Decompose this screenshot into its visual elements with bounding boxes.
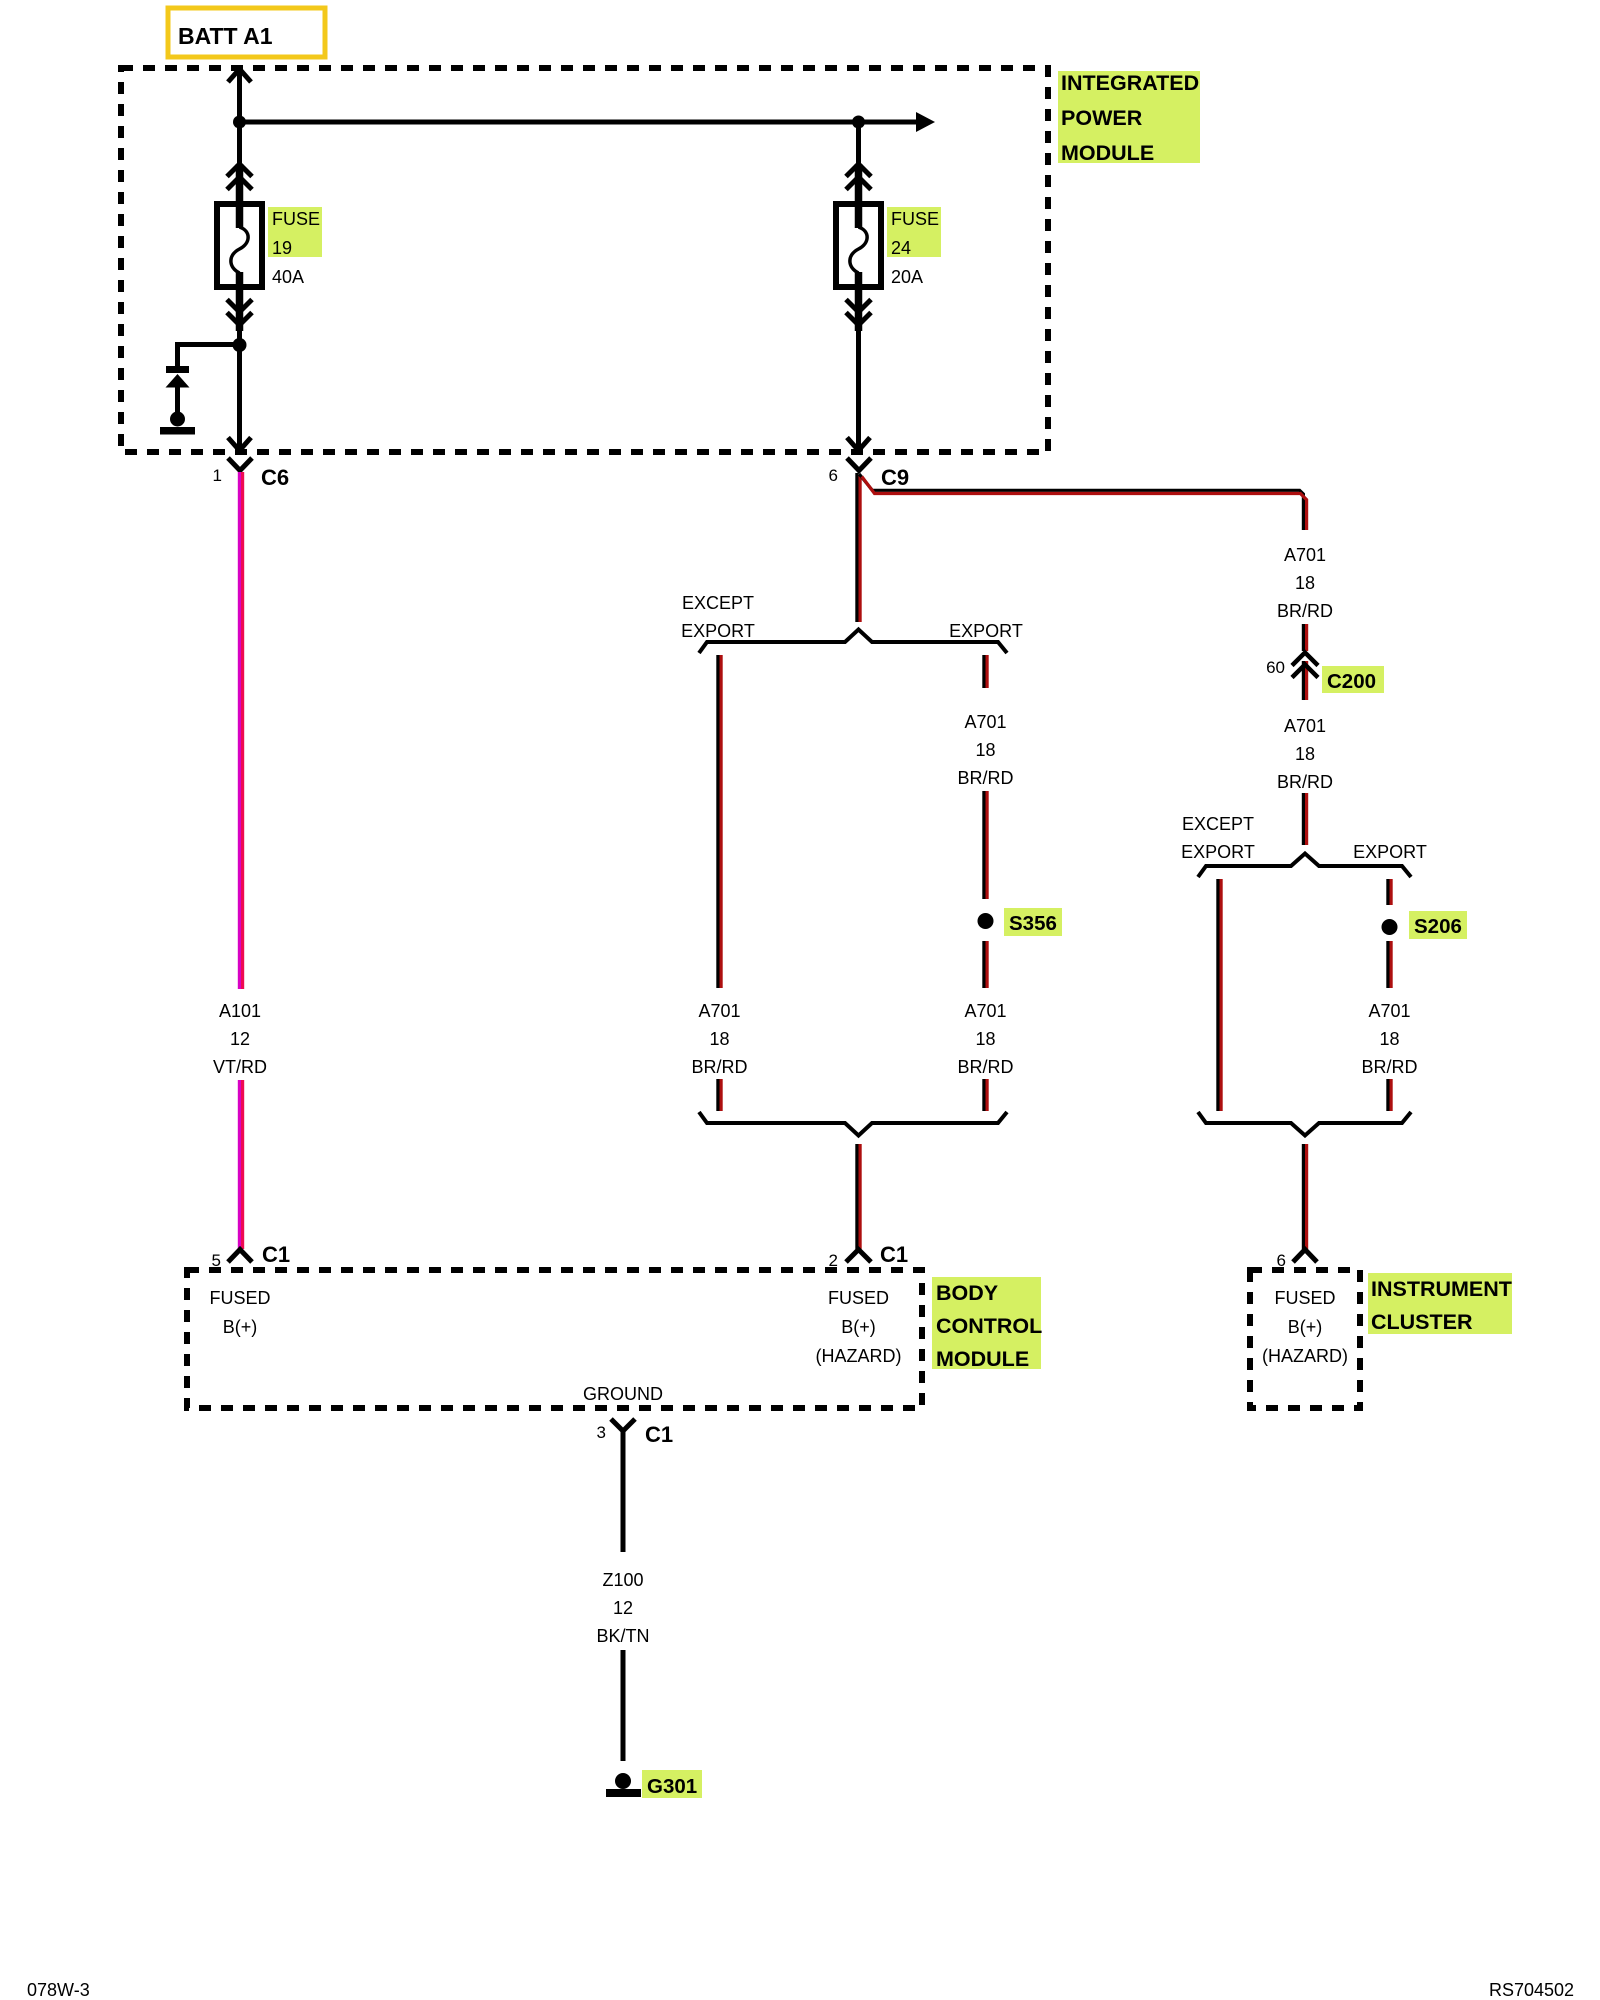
fuse 19 label	[268, 207, 322, 287]
svg-text:FUSED: FUSED	[1274, 1288, 1335, 1308]
wire segment to ground G301	[621, 1650, 626, 1761]
wire label A701 18 BR/RD (export branch lower)	[957, 1001, 1013, 1077]
svg-text:BK/TN: BK/TN	[596, 1626, 649, 1646]
case ground symbol for diode	[160, 412, 195, 435]
battery feed box BATT A1	[168, 8, 325, 57]
svg-text:078W-3: 078W-3	[27, 1980, 90, 2000]
svg-text:12: 12	[230, 1029, 250, 1049]
connector C6 pin 1	[213, 458, 290, 490]
svg-text:S206: S206	[1414, 915, 1462, 938]
wire label A701 18 BR/RD (export branch upper)	[957, 712, 1013, 788]
chevrons above fuse 24	[846, 164, 871, 190]
wire A701 BR/RD except-export branch (left)	[718, 655, 721, 1111]
splice S356	[978, 908, 1063, 936]
svg-text:BODY: BODY	[936, 1281, 998, 1305]
wire from merge brace to C1 pin 2	[857, 1144, 860, 1249]
distribution brace below C9	[699, 630, 1007, 654]
wire label A101 12 VT/RD	[213, 1001, 267, 1077]
svg-text:VT/RD: VT/RD	[213, 1057, 267, 1077]
wire from BATT A1 down to junction (with up arrowhead)	[228, 69, 251, 122]
svg-text:CONTROL: CONTROL	[936, 1314, 1042, 1338]
svg-text:A701: A701	[698, 1001, 740, 1021]
svg-text:A701: A701	[1284, 716, 1326, 736]
connector C1 pin 5	[212, 1242, 291, 1270]
EXCEPT EXPORT / EXPORT labels (left brace set)	[681, 593, 1023, 641]
fuse F24	[836, 201, 881, 290]
instrument cluster label	[1368, 1273, 1512, 1334]
svg-text:RS704502: RS704502	[1489, 1980, 1574, 2000]
svg-text:EXPORT: EXPORT	[1353, 842, 1427, 862]
svg-text:C1: C1	[262, 1242, 290, 1267]
svg-text:INSTRUMENT: INSTRUMENT	[1371, 1277, 1512, 1301]
chevrons above fuse 19	[227, 164, 252, 190]
ground G301 symbol	[606, 1773, 641, 1797]
merge brace above instrument cluster C1 pin 6	[1198, 1112, 1411, 1136]
wire label A701 18 BR/RD (right export branch)	[1361, 1001, 1417, 1077]
svg-text:EXCEPT: EXCEPT	[1182, 814, 1254, 834]
svg-text:FUSED: FUSED	[828, 1288, 889, 1308]
node junction above fuse 24	[852, 116, 865, 129]
chevrons below fuse 19	[227, 300, 252, 326]
svg-text:19: 19	[272, 238, 292, 258]
connector C200 pin 60 (double chevron)	[1266, 653, 1384, 694]
wire label Z100 12 BK/TN	[596, 1570, 649, 1646]
wire segment from C200 to right distribution brace	[1303, 793, 1306, 845]
svg-text:12: 12	[613, 1598, 633, 1618]
wire segment above C200	[1303, 624, 1306, 700]
svg-text:EXPORT: EXPORT	[949, 621, 1023, 641]
svg-text:POWER: POWER	[1061, 106, 1143, 130]
wire label A701 18 BR/RD (left branch)	[691, 1001, 747, 1077]
wire segment below splice S356	[984, 941, 987, 1111]
svg-text:60: 60	[1266, 658, 1285, 677]
instrument cluster box (dashed)	[1250, 1270, 1360, 1408]
fuse F19	[217, 201, 262, 290]
svg-text:A701: A701	[1284, 545, 1326, 565]
svg-text:BR/RD: BR/RD	[957, 1057, 1013, 1077]
svg-text:(HAZARD): (HAZARD)	[1262, 1346, 1348, 1366]
svg-text:18: 18	[975, 1029, 995, 1049]
arrowhead at C6 boundary	[228, 438, 251, 451]
connector C9 pin 6	[829, 458, 910, 490]
svg-text:MODULE: MODULE	[936, 1347, 1029, 1371]
svg-text:EXCEPT: EXCEPT	[682, 593, 754, 613]
arrowhead at C9 boundary	[847, 438, 870, 451]
svg-text:A701: A701	[964, 712, 1006, 732]
svg-text:GROUND: GROUND	[583, 1384, 663, 1404]
svg-text:A101: A101	[219, 1001, 261, 1021]
svg-text:B(+): B(+)	[841, 1317, 876, 1337]
svg-text:BR/RD: BR/RD	[957, 768, 1013, 788]
svg-text:G301: G301	[647, 1775, 697, 1798]
chevrons below fuse 24	[846, 300, 871, 326]
node junction top-left	[233, 116, 246, 129]
wire from junction into fuse 24	[856, 122, 861, 168]
wire Z100 BK/TN from C1 pin 3	[621, 1430, 626, 1552]
svg-text:FUSE: FUSE	[272, 209, 320, 229]
svg-text:BR/RD: BR/RD	[691, 1057, 747, 1077]
wire A101 VT/RD (violet/red) from C6 to C1 pin 5	[239, 472, 242, 1249]
wire segment down to splice S356	[984, 791, 987, 899]
svg-text:Z100: Z100	[602, 1570, 643, 1590]
fuse 24 label	[887, 207, 941, 287]
svg-text:FUSED: FUSED	[209, 1288, 270, 1308]
integrated power module box (dashed)	[121, 68, 1048, 452]
svg-text:40A: 40A	[272, 267, 304, 287]
wire from merge brace to instrument cluster pin 6	[1303, 1144, 1306, 1249]
svg-text:C1: C1	[645, 1422, 673, 1447]
wire from junction into fuse 19	[237, 122, 242, 168]
EXCEPT EXPORT / EXPORT labels (right brace set)	[1181, 814, 1427, 862]
wire A701 BR/RD branch from C9 to the right and down to C200	[859, 474, 1306, 530]
svg-text:B(+): B(+)	[1288, 1317, 1323, 1337]
ground G301 label	[642, 1770, 702, 1798]
body control module label	[932, 1277, 1042, 1371]
wire below splice S206	[1388, 941, 1391, 1111]
svg-text:BATT A1: BATT A1	[178, 23, 273, 49]
svg-text:20A: 20A	[891, 267, 923, 287]
wire label A701 18 BR/RD (below C200)	[1277, 716, 1333, 792]
wire A701 BR/RD except-export branch (right set, left)	[1218, 879, 1221, 1111]
svg-text:A701: A701	[964, 1001, 1006, 1021]
svg-text:C6: C6	[261, 465, 289, 490]
svg-text:EXPORT: EXPORT	[681, 621, 755, 641]
svg-text:BR/RD: BR/RD	[1277, 601, 1333, 621]
svg-text:18: 18	[1295, 744, 1315, 764]
connector C1 pin 2	[829, 1242, 909, 1270]
body control module box (dashed)	[187, 1270, 922, 1408]
svg-text:BR/RD: BR/RD	[1361, 1057, 1417, 1077]
distribution brace below C200	[1198, 854, 1411, 878]
wire below fuse 24	[855, 287, 863, 331]
wire below fuse 19	[236, 287, 244, 331]
wire label A701 18 BR/RD (above C200)	[1277, 545, 1333, 621]
svg-text:C200: C200	[1327, 670, 1376, 693]
svg-text:EXPORT: EXPORT	[1181, 842, 1255, 862]
wire horizontal bus to the right with arrowhead	[240, 112, 936, 132]
svg-text:C9: C9	[881, 465, 909, 490]
node junction to diode branch	[233, 338, 247, 352]
svg-text:INTEGRATED: INTEGRATED	[1061, 71, 1199, 95]
wire A701 BR/RD export branch (right) upper	[984, 655, 987, 688]
svg-text:FUSE: FUSE	[891, 209, 939, 229]
svg-text:18: 18	[1295, 573, 1315, 593]
svg-text:C1: C1	[880, 1242, 908, 1267]
diode (cathode bar up, anode to case ground)	[166, 366, 190, 413]
svg-text:CLUSTER: CLUSTER	[1371, 1310, 1473, 1334]
svg-text:18: 18	[975, 740, 995, 760]
svg-text:S356: S356	[1009, 912, 1057, 935]
connector pin 6 (instrument cluster)	[1277, 1250, 1317, 1271]
svg-text:24: 24	[891, 238, 911, 258]
svg-text:BR/RD: BR/RD	[1277, 772, 1333, 792]
svg-text:A701: A701	[1368, 1001, 1410, 1021]
merge brace above BCM C1 pin 2	[699, 1112, 1007, 1136]
svg-text:B(+): B(+)	[223, 1317, 258, 1337]
BCM pin functions	[209, 1288, 901, 1404]
svg-text:6: 6	[829, 466, 838, 485]
wire export branch down to splice S206	[1388, 879, 1391, 905]
connector C1 pin 3 (ground)	[597, 1419, 674, 1447]
svg-text:MODULE: MODULE	[1061, 141, 1154, 165]
instrument cluster pin function	[1262, 1288, 1348, 1366]
wire A701 BR/RD from C9 down to distribution brace	[857, 473, 860, 622]
wire branch to diode	[178, 345, 240, 367]
svg-text:18: 18	[1379, 1029, 1399, 1049]
splice S206	[1382, 911, 1468, 939]
integrated power module label	[1058, 71, 1200, 165]
svg-text:18: 18	[709, 1029, 729, 1049]
svg-text:(HAZARD): (HAZARD)	[816, 1346, 902, 1366]
svg-text:1: 1	[213, 466, 222, 485]
svg-text:3: 3	[597, 1423, 606, 1442]
